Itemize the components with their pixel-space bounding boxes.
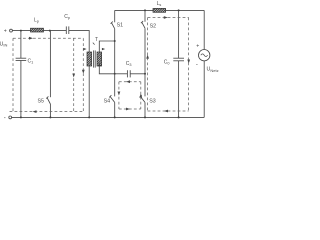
dashed loop right top xyxy=(148,17,189,19)
arrow left of primary xyxy=(83,48,86,50)
wire ac to rail xyxy=(203,61,205,118)
node secondary top xyxy=(114,40,116,42)
capacitor C0 xyxy=(164,58,184,65)
dashed loop right left xyxy=(147,18,149,112)
dashed loop mid top xyxy=(119,81,141,83)
arrow right loop bottom left xyxy=(164,110,168,113)
wire Lp to Cp xyxy=(44,30,67,32)
svg-text:C1: C1 xyxy=(28,58,34,64)
dashed loop mid bottom xyxy=(119,108,141,110)
wire S1 to node xyxy=(114,29,116,74)
node C3 left xyxy=(114,73,116,75)
arrow mid loop top left xyxy=(126,80,130,83)
svg-text:C0: C0 xyxy=(164,60,170,66)
node rail C0 xyxy=(178,116,180,118)
wire primary bottom xyxy=(88,66,90,117)
svg-text:Ls: Ls xyxy=(157,1,162,7)
dashed loop left bottom xyxy=(10,111,84,113)
inductor Ls xyxy=(153,1,166,12)
wire top input xyxy=(12,30,30,32)
switch S3 xyxy=(140,95,156,117)
svg-text:UIN: UIN xyxy=(0,42,8,48)
wire S4 branch xyxy=(114,74,116,97)
arrow mid loop left down xyxy=(118,92,121,96)
svg-text:S1: S1 xyxy=(117,23,124,29)
svg-text:C3: C3 xyxy=(126,61,132,67)
dashed loop mid left xyxy=(118,82,120,109)
arrow left loop bottom left xyxy=(33,110,37,113)
dashed loop left top xyxy=(13,37,83,39)
top rail xyxy=(115,9,205,11)
svg-text:S2: S2 xyxy=(150,24,157,30)
dashed loop left right xyxy=(82,38,84,111)
wire right edge down xyxy=(203,10,205,49)
plus terminal input xyxy=(4,28,13,34)
svg-text:-: - xyxy=(196,62,198,68)
node C3 right xyxy=(144,73,146,75)
transformer T xyxy=(87,37,102,68)
arrow right loop right down xyxy=(187,60,190,64)
arrow inner vertical down xyxy=(72,74,75,78)
wire C0 branch top xyxy=(178,10,180,58)
arrow left loop right edge down xyxy=(82,70,85,74)
node B xyxy=(49,30,51,32)
arrow left loop top right xyxy=(29,37,33,40)
wire C3 right xyxy=(130,73,145,75)
svg-text:T: T xyxy=(95,37,98,43)
arrow right of secondary xyxy=(102,48,105,50)
capacitor C1 xyxy=(16,58,34,64)
dashed loop right right xyxy=(188,18,190,112)
minus terminal input xyxy=(4,116,12,122)
wire S2 to C3 node xyxy=(144,28,146,96)
svg-text:Lp: Lp xyxy=(34,18,39,24)
wire C1 to rail xyxy=(20,61,22,118)
svg-text:-: - xyxy=(4,116,6,120)
capacitor C3 wire xyxy=(115,73,128,75)
svg-text:+: + xyxy=(4,28,7,34)
svg-text:UNetz: UNetz xyxy=(207,67,219,73)
svg-text:S4: S4 xyxy=(104,98,111,104)
wire secondary bottom xyxy=(99,66,114,74)
dashed loop left left xyxy=(12,38,14,111)
capacitor Cp xyxy=(64,14,70,34)
arrow right loop left up xyxy=(146,55,149,59)
node A xyxy=(20,30,22,32)
node top rail S2 xyxy=(144,9,146,11)
wire Cp to transformer xyxy=(69,31,89,52)
arrow mid loop right up xyxy=(139,94,142,98)
bottom rail xyxy=(12,116,205,118)
wire secondary top xyxy=(99,41,114,52)
arrow secondary bottom up xyxy=(98,63,100,67)
arrow right loop top right xyxy=(164,16,168,19)
switch S2 xyxy=(141,21,156,30)
switch S1 xyxy=(111,22,124,29)
svg-text:+: + xyxy=(196,43,199,49)
node rail S5 xyxy=(49,116,51,118)
wire S2 branch top xyxy=(144,10,146,21)
dashed loop mid right xyxy=(140,82,142,109)
wire C1 branch xyxy=(20,31,22,59)
svg-text:Cp: Cp xyxy=(64,14,70,20)
arrow mid loop bottom right xyxy=(126,108,130,111)
wire C0 branch bottom xyxy=(178,61,180,118)
switch S4 xyxy=(104,95,115,117)
node rail C1 xyxy=(20,116,22,118)
svg-text:S3: S3 xyxy=(149,98,156,104)
wire S5 branch xyxy=(49,31,51,98)
switch S5 xyxy=(38,96,51,117)
ac source U_Netz xyxy=(196,43,219,72)
svg-text:S5: S5 xyxy=(38,98,45,104)
dashed loop right bottom xyxy=(148,110,189,112)
wire S1 branch top xyxy=(114,10,116,22)
node C0 top xyxy=(178,9,180,11)
node rail S4 xyxy=(114,116,116,118)
node rail S3 xyxy=(144,116,146,118)
dashed inner vertical xyxy=(73,38,75,111)
inductor Lp xyxy=(31,18,44,32)
capacitor C3 xyxy=(126,61,132,78)
node rail primary xyxy=(88,116,90,118)
